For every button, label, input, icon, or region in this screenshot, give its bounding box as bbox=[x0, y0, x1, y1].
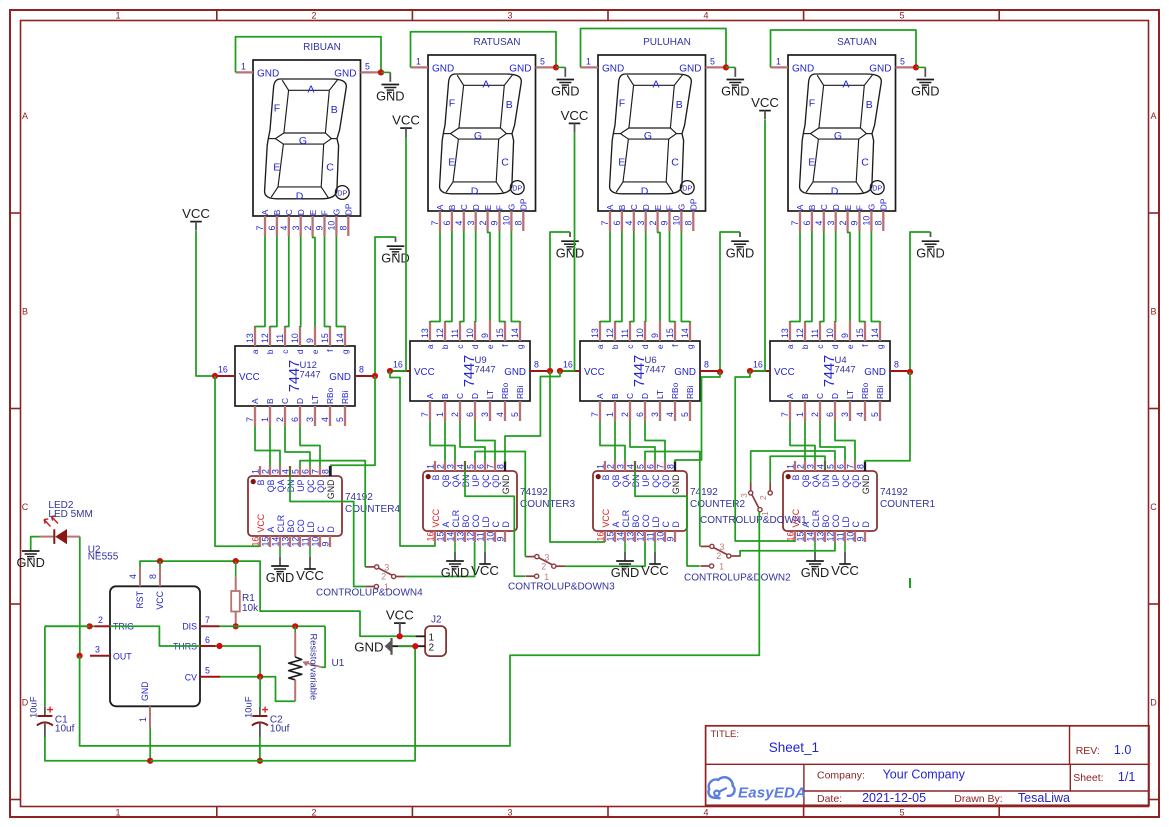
wire bbox=[805, 231, 812, 322]
ground bbox=[376, 85, 404, 104]
svg-text:GND: GND bbox=[726, 245, 754, 260]
svg-text:GND: GND bbox=[329, 372, 351, 383]
svg-text:1: 1 bbox=[786, 464, 796, 469]
svg-text:7447: 7447 bbox=[300, 370, 321, 381]
svg-text:Sheet:: Sheet: bbox=[1073, 772, 1103, 784]
junction bbox=[553, 64, 559, 70]
wire bbox=[681, 231, 690, 322]
LED LED2 bbox=[40, 500, 93, 544]
junction bbox=[233, 558, 239, 564]
svg-text:G: G bbox=[677, 204, 687, 211]
svg-text:G: G bbox=[644, 130, 652, 142]
svg-text:a: a bbox=[785, 344, 795, 349]
wire bbox=[871, 231, 880, 322]
svg-text:C: C bbox=[459, 204, 469, 210]
wire bbox=[820, 231, 824, 322]
svg-text:VCC: VCC bbox=[239, 372, 260, 383]
svg-text:VCC: VCC bbox=[392, 113, 420, 128]
svg-text:e: e bbox=[845, 344, 855, 349]
7447 decoder U12 bbox=[215, 326, 375, 426]
wire DN pin to switch3 pin1 bbox=[464, 461, 466, 471]
svg-text:d: d bbox=[830, 344, 840, 349]
svg-text:4: 4 bbox=[855, 412, 865, 417]
svg-text:GND: GND bbox=[501, 475, 511, 495]
wire bbox=[658, 231, 660, 321]
svg-text:C: C bbox=[280, 398, 290, 404]
svg-text:CLR: CLR bbox=[276, 515, 286, 533]
wire bbox=[670, 231, 676, 322]
wire to ground bbox=[279, 547, 281, 566]
svg-text:D: D bbox=[471, 204, 481, 210]
svg-text:15: 15 bbox=[436, 532, 446, 542]
svg-text:6: 6 bbox=[635, 412, 645, 417]
junction bbox=[913, 64, 919, 70]
svg-text:5: 5 bbox=[826, 464, 836, 469]
svg-text:D: D bbox=[470, 393, 480, 399]
svg-text:7: 7 bbox=[486, 464, 496, 469]
svg-text:D: D bbox=[471, 185, 479, 197]
wire to ground bbox=[556, 66, 565, 68]
ground bbox=[801, 561, 829, 580]
7-segment display RIBUAN bbox=[236, 60, 382, 236]
svg-text:4: 4 bbox=[624, 221, 634, 226]
wire bbox=[110, 626, 200, 646]
wire bbox=[865, 372, 910, 462]
svg-text:GND: GND bbox=[257, 69, 279, 80]
svg-text:GND: GND bbox=[721, 84, 749, 99]
svg-text:GND: GND bbox=[792, 64, 814, 75]
svg-text:QA: QA bbox=[276, 479, 286, 492]
svg-text:GND: GND bbox=[916, 245, 944, 260]
svg-text:GND: GND bbox=[551, 84, 579, 99]
svg-text:CLR: CLR bbox=[811, 510, 821, 528]
svg-text:1: 1 bbox=[260, 417, 270, 422]
svg-text:7: 7 bbox=[205, 615, 210, 625]
wire bbox=[31, 537, 40, 551]
svg-text:G: G bbox=[332, 209, 342, 216]
svg-text:DP: DP bbox=[682, 183, 692, 192]
svg-text:a: a bbox=[595, 344, 605, 349]
svg-text:16: 16 bbox=[426, 532, 436, 542]
svg-text:c: c bbox=[625, 345, 635, 349]
svg-text:B: B bbox=[22, 307, 28, 317]
svg-text:15: 15 bbox=[665, 328, 675, 338]
wire bbox=[770, 456, 825, 482]
svg-text:QD: QD bbox=[851, 475, 861, 488]
wire bbox=[269, 426, 271, 466]
svg-text:COUNTER2: COUNTER2 bbox=[690, 499, 745, 510]
svg-text:E: E bbox=[448, 157, 455, 169]
svg-text:SATUAN: SATUAN bbox=[837, 37, 877, 48]
svg-text:QB: QB bbox=[266, 479, 276, 492]
svg-text:10: 10 bbox=[465, 328, 475, 338]
svg-text:UP: UP bbox=[296, 479, 306, 491]
wire bbox=[300, 461, 365, 567]
svg-text:VCC: VCC bbox=[431, 508, 441, 527]
ground bbox=[611, 561, 639, 580]
svg-text:2: 2 bbox=[311, 808, 316, 818]
svg-text:C: C bbox=[501, 157, 509, 169]
wire bbox=[44, 626, 46, 707]
svg-text:6: 6 bbox=[612, 221, 622, 226]
svg-text:D: D bbox=[641, 185, 649, 197]
svg-text:D: D bbox=[501, 521, 511, 527]
svg-text:2: 2 bbox=[648, 221, 658, 226]
wire bbox=[474, 231, 477, 322]
svg-text:5: 5 bbox=[540, 57, 545, 67]
svg-text:5: 5 bbox=[899, 808, 904, 818]
counter1 GND pin stub bbox=[864, 462, 866, 471]
svg-text:16: 16 bbox=[393, 360, 403, 370]
svg-text:13: 13 bbox=[780, 328, 790, 338]
svg-text:4: 4 bbox=[703, 11, 708, 21]
svg-text:CONTROLUP&DOWN1: CONTROLUP&DOWN1 bbox=[700, 515, 807, 526]
svg-text:BO: BO bbox=[821, 515, 831, 528]
svg-text:12: 12 bbox=[435, 328, 445, 338]
wire bbox=[615, 231, 622, 322]
wire bbox=[630, 421, 655, 461]
svg-text:A: A bbox=[22, 111, 28, 121]
svg-text:C: C bbox=[1150, 502, 1157, 512]
svg-text:VCC: VCC bbox=[386, 608, 414, 623]
svg-text:D: D bbox=[1150, 698, 1157, 708]
svg-text:5: 5 bbox=[900, 57, 905, 67]
wire bbox=[390, 137, 406, 371]
svg-text:14: 14 bbox=[510, 328, 520, 338]
svg-text:3: 3 bbox=[507, 808, 512, 818]
VCC power flag bbox=[751, 95, 779, 120]
svg-text:10uF: 10uF bbox=[243, 696, 254, 718]
svg-text:d: d bbox=[295, 349, 305, 354]
wire bbox=[45, 625, 90, 627]
svg-text:C: C bbox=[629, 204, 639, 210]
wire bbox=[735, 371, 795, 541]
wire bbox=[771, 30, 917, 67]
svg-text:NE555: NE555 bbox=[88, 552, 119, 563]
svg-text:16: 16 bbox=[251, 537, 261, 547]
svg-text:UP: UP bbox=[471, 474, 481, 486]
svg-text:CO: CO bbox=[831, 514, 841, 527]
svg-text:CO: CO bbox=[296, 519, 306, 532]
wire bbox=[196, 231, 215, 376]
svg-text:TITLE:: TITLE: bbox=[711, 729, 740, 740]
svg-text:LED 5MM: LED 5MM bbox=[48, 509, 92, 520]
svg-text:RBo: RBo bbox=[325, 387, 335, 404]
svg-text:B: B bbox=[331, 104, 338, 116]
wire to ground bbox=[916, 66, 925, 68]
svg-text:9: 9 bbox=[660, 221, 670, 226]
svg-text:D: D bbox=[861, 521, 871, 527]
svg-text:A: A bbox=[652, 79, 659, 91]
svg-text:7: 7 bbox=[420, 412, 430, 417]
svg-text:CLR: CLR bbox=[451, 510, 461, 528]
svg-text:12: 12 bbox=[826, 532, 836, 542]
7-segment display RATUSAN bbox=[411, 55, 557, 231]
svg-text:a: a bbox=[425, 344, 435, 349]
svg-text:C: C bbox=[316, 526, 326, 533]
svg-text:d: d bbox=[470, 344, 480, 349]
svg-text:8: 8 bbox=[148, 574, 158, 579]
svg-text:7447: 7447 bbox=[835, 365, 856, 376]
svg-text:B: B bbox=[676, 99, 683, 111]
svg-text:1: 1 bbox=[544, 572, 549, 582]
wire bbox=[45, 625, 95, 627]
SPDT switch CONTROLUP&amp;DOWN3 bbox=[525, 552, 565, 582]
wire bbox=[285, 426, 310, 466]
title block bbox=[706, 726, 1149, 806]
svg-text:6: 6 bbox=[802, 221, 812, 226]
wire bbox=[140, 561, 416, 636]
svg-text:1: 1 bbox=[605, 412, 615, 417]
wire bbox=[79, 537, 81, 656]
wire DN pin to switch4 pin1 bbox=[289, 466, 291, 476]
svg-text:D: D bbox=[640, 393, 650, 399]
junction bbox=[387, 368, 393, 374]
svg-text:B: B bbox=[791, 474, 801, 480]
wire bbox=[848, 231, 850, 321]
svg-text:g: g bbox=[875, 344, 885, 349]
svg-text:b: b bbox=[440, 344, 450, 349]
junction bbox=[557, 368, 563, 374]
svg-text:Drawn By:: Drawn By: bbox=[954, 793, 1002, 805]
svg-text:QC: QC bbox=[306, 479, 316, 493]
svg-text:CV: CV bbox=[185, 672, 197, 682]
svg-text:F: F bbox=[495, 205, 505, 210]
svg-text:10: 10 bbox=[290, 333, 300, 343]
wire bbox=[751, 451, 835, 482]
svg-text:LT: LT bbox=[845, 390, 855, 399]
svg-text:1: 1 bbox=[416, 57, 421, 67]
svg-text:TesaLiwa: TesaLiwa bbox=[1018, 791, 1070, 805]
svg-text:6: 6 bbox=[836, 464, 846, 469]
svg-text:5: 5 bbox=[335, 417, 345, 422]
svg-text:8: 8 bbox=[321, 469, 331, 474]
svg-text:BO: BO bbox=[461, 515, 471, 528]
svg-text:10uf: 10uf bbox=[270, 724, 290, 735]
svg-text:10: 10 bbox=[862, 216, 872, 226]
wire bbox=[411, 32, 557, 68]
svg-text:B: B bbox=[617, 204, 627, 210]
svg-text:RBo: RBo bbox=[500, 382, 510, 399]
svg-text:B: B bbox=[1150, 307, 1156, 317]
svg-text:7447: 7447 bbox=[475, 365, 496, 376]
wire bbox=[460, 231, 464, 322]
svg-text:9: 9 bbox=[850, 221, 860, 226]
svg-text:1: 1 bbox=[596, 464, 606, 469]
svg-text:b: b bbox=[265, 349, 275, 354]
wire J2 pin2 green bbox=[398, 645, 415, 647]
svg-text:16: 16 bbox=[563, 360, 573, 370]
wire bbox=[255, 426, 280, 466]
junction bbox=[547, 368, 553, 374]
svg-text:2: 2 bbox=[381, 572, 386, 582]
svg-text:4: 4 bbox=[320, 417, 330, 422]
svg-text:1: 1 bbox=[241, 62, 246, 72]
svg-text:9: 9 bbox=[496, 537, 506, 542]
wire bbox=[790, 421, 815, 461]
junction bbox=[717, 369, 723, 375]
svg-text:4: 4 bbox=[279, 226, 289, 231]
svg-text:A: A bbox=[435, 204, 445, 210]
svg-text:QB: QB bbox=[801, 474, 811, 487]
7447 decoder U4 bbox=[750, 321, 910, 421]
wire bbox=[488, 231, 490, 321]
junction bbox=[87, 623, 93, 629]
svg-text:C: C bbox=[22, 502, 29, 512]
junction bbox=[77, 653, 83, 659]
resistor R1 bbox=[231, 561, 259, 626]
svg-text:5: 5 bbox=[636, 464, 646, 469]
svg-text:GND: GND bbox=[509, 64, 531, 75]
wire bbox=[336, 236, 345, 327]
svg-text:8: 8 bbox=[894, 360, 899, 370]
svg-text:9: 9 bbox=[666, 537, 676, 542]
wire bbox=[215, 376, 260, 546]
svg-text:LD: LD bbox=[841, 516, 851, 527]
wire to ground bbox=[454, 542, 456, 561]
wire bbox=[259, 737, 261, 761]
svg-text:DP: DP bbox=[344, 203, 354, 215]
svg-text:2: 2 bbox=[810, 412, 820, 417]
svg-text:10uf: 10uf bbox=[55, 724, 75, 735]
svg-text:D: D bbox=[326, 526, 336, 532]
svg-text:9: 9 bbox=[315, 226, 325, 231]
svg-text:D: D bbox=[296, 209, 306, 215]
svg-text:2021-12-05: 2021-12-05 bbox=[862, 791, 926, 805]
svg-text:F: F bbox=[619, 98, 625, 110]
svg-text:CO: CO bbox=[641, 514, 651, 527]
svg-text:e: e bbox=[485, 344, 495, 349]
svg-text:D: D bbox=[296, 190, 304, 202]
svg-text:e: e bbox=[310, 349, 320, 354]
svg-text:B: B bbox=[601, 474, 611, 480]
svg-text:15: 15 bbox=[261, 537, 271, 547]
wire bbox=[220, 677, 295, 702]
svg-text:11: 11 bbox=[450, 329, 460, 338]
svg-text:1.0: 1.0 bbox=[1114, 743, 1131, 757]
ground bbox=[726, 241, 754, 260]
wire bbox=[325, 236, 331, 327]
svg-text:2: 2 bbox=[541, 561, 546, 571]
svg-text:GND: GND bbox=[679, 64, 701, 75]
svg-text:10k: 10k bbox=[242, 603, 259, 614]
svg-text:C: C bbox=[671, 157, 679, 169]
wire bbox=[550, 232, 570, 371]
svg-text:BO: BO bbox=[631, 515, 641, 528]
wire bbox=[475, 452, 525, 557]
junction bbox=[257, 674, 263, 680]
svg-text:A: A bbox=[482, 79, 489, 91]
svg-text:QB: QB bbox=[611, 474, 621, 487]
junction bbox=[907, 369, 913, 375]
svg-text:15: 15 bbox=[495, 328, 505, 338]
svg-text:DP: DP bbox=[879, 198, 889, 210]
svg-text:D: D bbox=[295, 398, 305, 404]
svg-text:DP: DP bbox=[872, 183, 882, 192]
svg-text:RIBUAN: RIBUAN bbox=[303, 42, 341, 53]
svg-text:RBo: RBo bbox=[670, 382, 680, 399]
wire bbox=[630, 231, 634, 322]
svg-text:10: 10 bbox=[825, 328, 835, 338]
svg-text:DIS: DIS bbox=[182, 622, 197, 632]
svg-text:C: C bbox=[284, 209, 294, 215]
svg-text:CLR: CLR bbox=[621, 510, 631, 528]
wire bbox=[460, 421, 485, 461]
svg-text:11: 11 bbox=[836, 532, 846, 541]
svg-text:C: C bbox=[625, 393, 635, 399]
svg-text:VCC: VCC bbox=[584, 367, 605, 378]
svg-text:Sheet_1: Sheet_1 bbox=[769, 740, 819, 755]
svg-text:B: B bbox=[866, 99, 873, 111]
svg-text:b: b bbox=[610, 344, 620, 349]
svg-text:COUNTER1: COUNTER1 bbox=[880, 499, 935, 510]
svg-text:GND: GND bbox=[266, 570, 294, 585]
svg-text:DP: DP bbox=[689, 198, 699, 210]
svg-text:7: 7 bbox=[656, 464, 666, 469]
svg-text:GND: GND bbox=[869, 64, 891, 75]
wire bbox=[720, 232, 740, 372]
svg-text:GND: GND bbox=[864, 367, 886, 378]
svg-text:2: 2 bbox=[311, 11, 316, 21]
wire bbox=[313, 236, 315, 326]
svg-text:d: d bbox=[640, 344, 650, 349]
ground bbox=[911, 80, 939, 99]
svg-text:7: 7 bbox=[255, 226, 265, 231]
svg-text:G: G bbox=[834, 130, 842, 142]
svg-text:1: 1 bbox=[795, 412, 805, 417]
svg-text:9: 9 bbox=[650, 333, 660, 338]
svg-text:5: 5 bbox=[870, 412, 880, 417]
svg-text:13: 13 bbox=[816, 532, 826, 542]
svg-text:G: G bbox=[867, 204, 877, 211]
svg-text:3: 3 bbox=[826, 221, 836, 226]
svg-text:C: C bbox=[861, 157, 869, 169]
wire bbox=[299, 236, 302, 327]
wire bbox=[375, 237, 396, 376]
junction bbox=[157, 558, 163, 564]
junction bbox=[233, 623, 239, 629]
svg-text:12: 12 bbox=[466, 532, 476, 542]
svg-text:DN: DN bbox=[821, 475, 831, 488]
wire bbox=[834, 231, 837, 322]
wire bbox=[505, 371, 550, 462]
svg-text:C: C bbox=[851, 521, 861, 528]
svg-text:2: 2 bbox=[478, 221, 488, 226]
svg-text:2: 2 bbox=[838, 221, 848, 226]
svg-text:6: 6 bbox=[442, 221, 452, 226]
wire bbox=[236, 37, 382, 73]
svg-text:LD: LD bbox=[306, 521, 316, 532]
svg-text:VCC: VCC bbox=[601, 508, 611, 527]
svg-text:1: 1 bbox=[138, 717, 148, 722]
svg-text:RBi: RBi bbox=[515, 385, 525, 399]
svg-text:6: 6 bbox=[825, 412, 835, 417]
svg-text:A: A bbox=[795, 204, 805, 210]
svg-text:VCC: VCC bbox=[774, 367, 795, 378]
svg-text:B: B bbox=[800, 393, 810, 399]
wire bbox=[321, 626, 325, 667]
wire bbox=[259, 677, 261, 707]
svg-text:2: 2 bbox=[758, 495, 768, 500]
svg-text:12: 12 bbox=[291, 537, 301, 547]
svg-text:GND: GND bbox=[326, 480, 336, 500]
svg-text:14: 14 bbox=[271, 537, 281, 547]
svg-text:CONTROLUP&DOWN3: CONTROLUP&DOWN3 bbox=[508, 582, 615, 593]
svg-text:UP: UP bbox=[641, 474, 651, 486]
svg-text:16: 16 bbox=[596, 532, 606, 542]
svg-text:16: 16 bbox=[218, 365, 228, 375]
svg-text:8: 8 bbox=[514, 221, 524, 226]
